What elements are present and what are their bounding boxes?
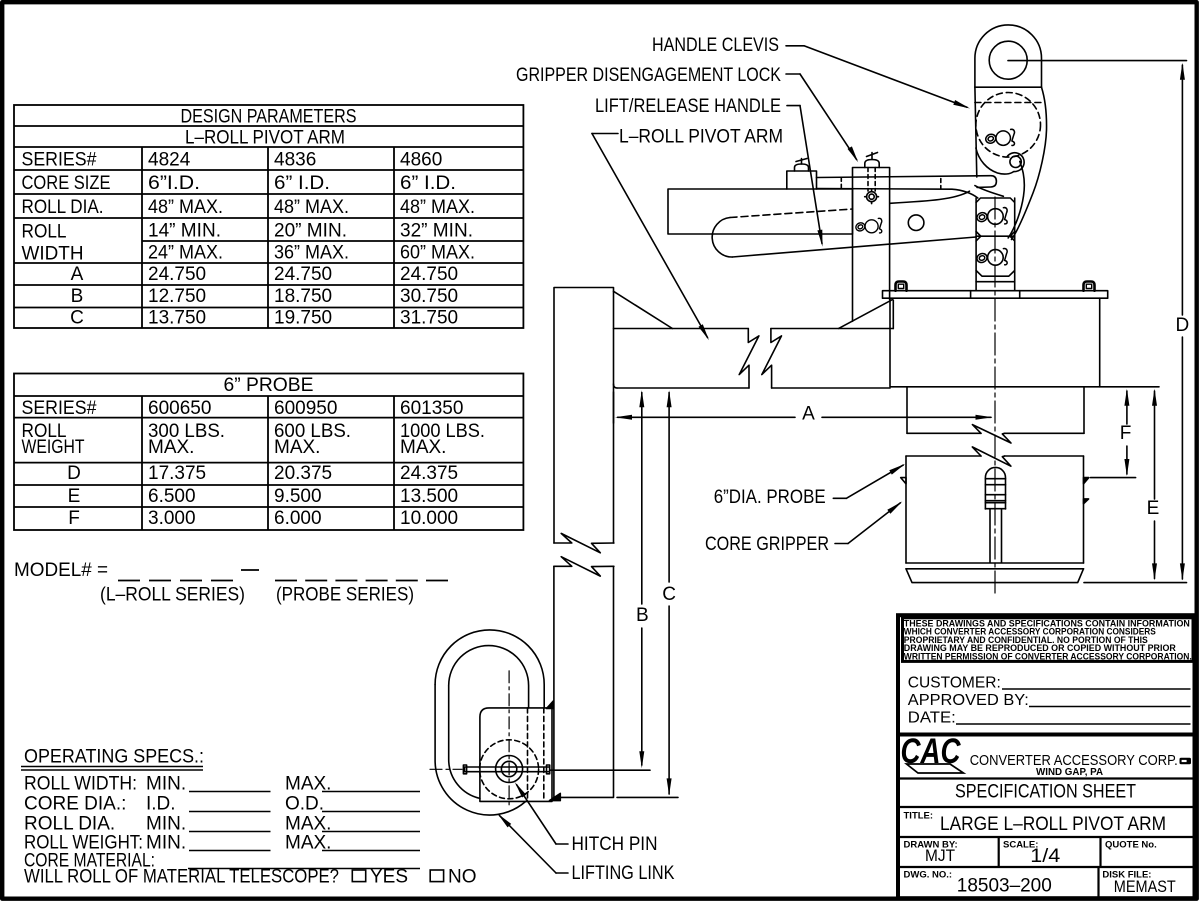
svg-text:ROLL: ROLL <box>22 222 67 243</box>
lock post washer <box>867 192 877 202</box>
svg-text:600650: 600650 <box>148 398 211 419</box>
svg-text:DATE:: DATE: <box>908 710 956 727</box>
cam hidden pivot circle <box>976 93 1041 158</box>
svg-text:MIN.: MIN. <box>146 814 186 835</box>
svg-text:MEMAST: MEMAST <box>1114 877 1176 896</box>
clamp plate bolt <box>795 164 809 171</box>
probe bands <box>985 478 1005 480</box>
lock post top bolt <box>865 160 879 168</box>
svg-text:APPROVED BY:: APPROVED BY: <box>908 692 1029 709</box>
svg-text:10.000: 10.000 <box>400 508 458 529</box>
plate bolt left <box>896 282 907 291</box>
svg-text:6” I.D.: 6” I.D. <box>400 173 456 194</box>
post upper break zigzag <box>554 533 614 552</box>
arm left break zigzag <box>739 329 759 389</box>
leader hitch pin <box>556 843 568 845</box>
pivot arm bottom edge (left of break) <box>617 387 749 389</box>
svg-text:48” MAX.: 48” MAX. <box>148 197 223 218</box>
svg-text:SERIES#: SERIES# <box>22 398 97 419</box>
weld triangle plate bottom <box>550 793 561 800</box>
svg-text:QUOTE No.: QUOTE No. <box>1105 840 1157 851</box>
svg-text:LIFTING LINK: LIFTING LINK <box>572 863 675 884</box>
arm right end edge <box>892 300 894 329</box>
svg-text:13.500: 13.500 <box>400 486 458 507</box>
pivot arm mount post upper section <box>554 288 614 544</box>
dim F line <box>1126 391 1128 424</box>
svg-text:CUSTOMER:: CUSTOMER: <box>908 675 1001 692</box>
svg-text:36” MAX.: 36” MAX. <box>274 243 349 264</box>
block2 lynch pin <box>976 248 1008 264</box>
svg-text:601350: 601350 <box>400 398 463 419</box>
svg-text:(L–ROLL SERIES): (L–ROLL SERIES) <box>100 585 245 606</box>
svg-text:I.D.: I.D. <box>146 794 176 815</box>
svg-text:48” MAX.: 48” MAX. <box>400 197 475 218</box>
leader l-roll pivot arm <box>592 133 618 135</box>
hidden pin boss circle <box>480 740 539 799</box>
svg-text:48” MAX.: 48” MAX. <box>274 197 349 218</box>
drawn-by row column separators <box>998 837 1000 867</box>
arm bottom fillet at post <box>614 384 618 388</box>
block2 pin hole <box>988 250 1004 266</box>
section line below spec sheet row <box>898 806 1195 808</box>
svg-text:F: F <box>68 508 80 529</box>
bolt shaft hidden lines <box>867 168 869 192</box>
handle pivot hole <box>908 215 924 231</box>
svg-text:B: B <box>71 286 84 307</box>
post edge extension for A <box>613 392 615 423</box>
svg-text:CORE GRIPPER: CORE GRIPPER <box>705 534 829 555</box>
probe break zigzag lower <box>972 447 1011 466</box>
svg-text:SPECIFICATION SHEET: SPECIFICATION SHEET <box>955 782 1136 803</box>
top mounting plate <box>883 291 1108 299</box>
leader core gripper <box>835 543 848 545</box>
clevis hidden joint line <box>975 102 1042 104</box>
core gripper box <box>905 456 907 563</box>
svg-text:4836: 4836 <box>274 150 316 171</box>
dim A line <box>618 416 795 418</box>
probe table text <box>22 375 486 529</box>
handle hidden top edge dashed <box>730 209 853 218</box>
clevis hole <box>989 41 1027 79</box>
weld triangle plate top <box>547 701 554 709</box>
svg-text:24.750: 24.750 <box>274 264 332 285</box>
main vertical centerline <box>994 197 996 597</box>
svg-text:13.750: 13.750 <box>148 308 206 329</box>
cam hook upper lip and curl <box>976 148 1024 174</box>
title block outer frame <box>898 615 1195 898</box>
svg-text:MAX.: MAX. <box>148 437 194 458</box>
svg-text:6”DIA. PROBE: 6”DIA. PROBE <box>714 487 826 508</box>
arm right gusset diagonal <box>839 300 893 329</box>
pivot arm top edge (left of break) <box>614 328 749 330</box>
link clevis plate <box>480 708 552 802</box>
block1 pin hole <box>988 209 1004 225</box>
svg-text:14” MIN.: 14” MIN. <box>148 221 221 242</box>
svg-text:60” MAX.: 60” MAX. <box>400 243 475 264</box>
probe shaft <box>990 509 1002 563</box>
dim E line <box>1154 391 1156 499</box>
hitch pin circles <box>496 756 523 783</box>
customer / approved / date <box>908 675 1029 727</box>
svg-text:6”I.D.: 6”I.D. <box>148 173 200 194</box>
handle strap <box>817 176 997 188</box>
pivot arm top edge (right of break) <box>771 328 893 330</box>
small black mark after corp <box>1180 758 1192 765</box>
plate hidden edges <box>527 708 529 802</box>
gripper lock post <box>853 168 890 322</box>
svg-text:O.D.: O.D. <box>285 794 324 815</box>
arm gusset diagonal left <box>614 291 673 328</box>
svg-text:A: A <box>802 404 815 425</box>
svg-text:NO: NO <box>448 867 477 888</box>
svg-text:MODEL# =: MODEL# = <box>14 560 108 581</box>
svg-text:24.750: 24.750 <box>148 264 206 285</box>
plate bolt right <box>1084 282 1095 291</box>
svg-text:YES: YES <box>370 867 408 888</box>
svg-text:9.500: 9.500 <box>274 486 322 507</box>
svg-text:B: B <box>636 605 649 626</box>
svg-text:LARGE L–ROLL PIVOT ARM: LARGE L–ROLL PIVOT ARM <box>940 814 1166 835</box>
design parameters table text <box>22 107 476 329</box>
svg-text:24” MAX.: 24” MAX. <box>148 243 223 264</box>
svg-text:C: C <box>70 308 84 329</box>
svg-text:DWG. NO.:: DWG. NO.: <box>904 870 953 881</box>
section line below logo block <box>898 777 1195 779</box>
svg-text:20” MIN.: 20” MIN. <box>274 221 347 242</box>
svg-text:17.375: 17.375 <box>148 463 206 484</box>
svg-text:ROLL DIA.: ROLL DIA. <box>24 814 115 835</box>
svg-text:4860: 4860 <box>400 150 442 171</box>
svg-text:MJT: MJT <box>925 846 955 865</box>
lock block stack sides <box>975 198 977 290</box>
svg-text:DESIGN PARAMETERS: DESIGN PARAMETERS <box>181 107 357 128</box>
lifting link outer <box>435 630 544 708</box>
design parameters table grid <box>14 105 523 328</box>
svg-text:24.375: 24.375 <box>400 463 458 484</box>
svg-text:GRIPPER DISENGAGEMENT LOCK: GRIPPER DISENGAGEMENT LOCK <box>516 65 781 86</box>
gripper base band <box>906 568 1084 570</box>
cam curl pin circle <box>1010 156 1021 167</box>
svg-text:600950: 600950 <box>274 398 337 419</box>
disclaimer text <box>904 618 1192 661</box>
hitch pin bar <box>465 767 550 772</box>
section line below drawn-by row <box>898 866 1195 868</box>
post lower break zigzag <box>554 557 614 576</box>
handle clevis <box>975 25 1042 87</box>
arm right break zigzag <box>762 329 782 389</box>
block1 lynch pin <box>976 208 1008 224</box>
svg-text:3.000: 3.000 <box>148 508 196 529</box>
E/F top reference line <box>1100 386 1159 388</box>
model number line <box>14 560 108 581</box>
small clamp plate on bar <box>787 171 817 189</box>
disclaimer box <box>903 618 1194 662</box>
svg-text:F: F <box>1120 423 1132 444</box>
svg-text:A: A <box>71 264 84 285</box>
E/D bottom reference line <box>1084 582 1187 584</box>
svg-text:MAX.: MAX. <box>274 437 320 458</box>
svg-text:OPERATING SPECS.:: OPERATING SPECS.: <box>24 747 204 768</box>
svg-text:E: E <box>1147 498 1160 519</box>
handle rounded left end <box>712 218 732 258</box>
probe dome <box>985 467 1005 509</box>
svg-text:C: C <box>662 584 676 605</box>
lock post lynch pin <box>855 218 882 233</box>
operating specs heading <box>24 747 204 768</box>
svg-text:6” I.D.: 6” I.D. <box>274 173 330 194</box>
strap bottom with fillet into block <box>817 189 978 199</box>
dim B line <box>641 393 643 605</box>
svg-text:ROLL WIDTH:: ROLL WIDTH: <box>24 774 137 795</box>
svg-text:D: D <box>1176 315 1190 336</box>
svg-text:HITCH PIN: HITCH PIN <box>572 834 658 855</box>
operating specs rows <box>24 774 477 888</box>
svg-text:ROLL DIA.: ROLL DIA. <box>22 197 104 218</box>
svg-text:12.750: 12.750 <box>148 286 206 307</box>
handle bottom edge <box>732 237 976 257</box>
block1/block2 joint <box>976 235 1015 237</box>
svg-text:32” MIN.: 32” MIN. <box>400 221 473 242</box>
svg-text:20.375: 20.375 <box>274 463 332 484</box>
svg-text:TITLE:: TITLE: <box>904 811 934 822</box>
dwg row column separator <box>1097 867 1099 898</box>
D top reference line <box>1008 60 1187 62</box>
F bottom reference line <box>1091 477 1136 479</box>
dim D line <box>1181 65 1183 315</box>
neck box <box>906 387 908 434</box>
lifting link inner <box>449 646 529 708</box>
svg-text:1/4: 1/4 <box>1030 846 1060 867</box>
leader handle clevis <box>786 45 804 47</box>
svg-text:(PROBE SERIES): (PROBE SERIES) <box>276 585 414 606</box>
strap hidden edge dashed right <box>940 179 942 189</box>
post lower section <box>554 566 614 797</box>
svg-text:6.500: 6.500 <box>148 486 196 507</box>
svg-text:WIND GAP, PA: WIND GAP, PA <box>1036 766 1103 778</box>
dim C line <box>668 393 670 583</box>
block2 bottom chamfer <box>976 271 1015 277</box>
svg-text:LIFT/RELEASE HANDLE: LIFT/RELEASE HANDLE <box>595 96 781 117</box>
strap hidden edge dashed <box>840 177 842 188</box>
svg-text:WEIGHT: WEIGHT <box>22 437 85 458</box>
svg-text:HANDLE CLEVIS: HANDLE CLEVIS <box>652 35 779 56</box>
block1 top edge with chamfers <box>976 198 1015 203</box>
leader lift/release handle <box>787 105 800 107</box>
svg-text:6” PROBE: 6” PROBE <box>224 375 314 396</box>
svg-text:18503–200: 18503–200 <box>957 876 1052 897</box>
cam left edge <box>975 87 977 177</box>
leader gripper disengagement lock <box>786 73 800 75</box>
block stack base line <box>976 281 1015 283</box>
svg-text:4824: 4824 <box>148 150 191 171</box>
svg-text:CORE DIA.:: CORE DIA.: <box>24 794 126 815</box>
pivot arm bottom edge (right of break) <box>772 387 890 389</box>
leader 6dia probe <box>833 497 846 499</box>
probe break zigzag upper <box>972 425 1011 443</box>
cam inner right edge <box>1008 161 1024 238</box>
cam lynch pin <box>984 129 1014 145</box>
handle bar block <box>668 189 853 234</box>
gripper side flags <box>901 478 906 484</box>
svg-text:L–ROLL PIVOT ARM: L–ROLL PIVOT ARM <box>185 128 345 149</box>
CAC logo <box>901 732 964 773</box>
svg-text:18.750: 18.750 <box>274 286 332 307</box>
main body <box>890 298 1100 387</box>
svg-text:MAX.: MAX. <box>400 437 446 458</box>
cam outer right edge <box>1012 87 1047 239</box>
svg-text:MIN.: MIN. <box>146 774 186 795</box>
section line below title row <box>898 836 1195 838</box>
svg-text:24.750: 24.750 <box>400 264 458 285</box>
leader lifting link <box>556 872 568 874</box>
C bottom reference line <box>617 796 678 798</box>
svg-text:6.000: 6.000 <box>274 508 322 529</box>
svg-text:WIDTH: WIDTH <box>22 244 84 265</box>
svg-text:CORE SIZE: CORE SIZE <box>22 173 111 194</box>
svg-text:SERIES#: SERIES# <box>22 150 97 171</box>
handle top edge right of post <box>890 191 970 203</box>
section line below customer block <box>898 733 1195 737</box>
svg-text:D: D <box>67 463 81 484</box>
svg-text:L–ROLL PIVOT ARM: L–ROLL PIVOT ARM <box>619 127 783 148</box>
probe table grid <box>14 374 523 531</box>
svg-text:31.750: 31.750 <box>400 308 458 329</box>
link centerline <box>508 671 510 807</box>
svg-text:WILL ROLL OF MATERIAL TELE: WILL ROLL OF MATERIAL TELESCOPE? <box>24 867 339 888</box>
svg-text:WRITTEN PERMISSION OF CONVE: WRITTEN PERMISSION OF CONVERTER ACCESSOR… <box>904 652 1192 662</box>
B bottom reference line <box>550 769 650 771</box>
svg-text:19.750: 19.750 <box>274 308 332 329</box>
cam lower lip <box>975 186 1004 197</box>
svg-text:30.750: 30.750 <box>400 286 458 307</box>
svg-text:E: E <box>68 486 81 507</box>
